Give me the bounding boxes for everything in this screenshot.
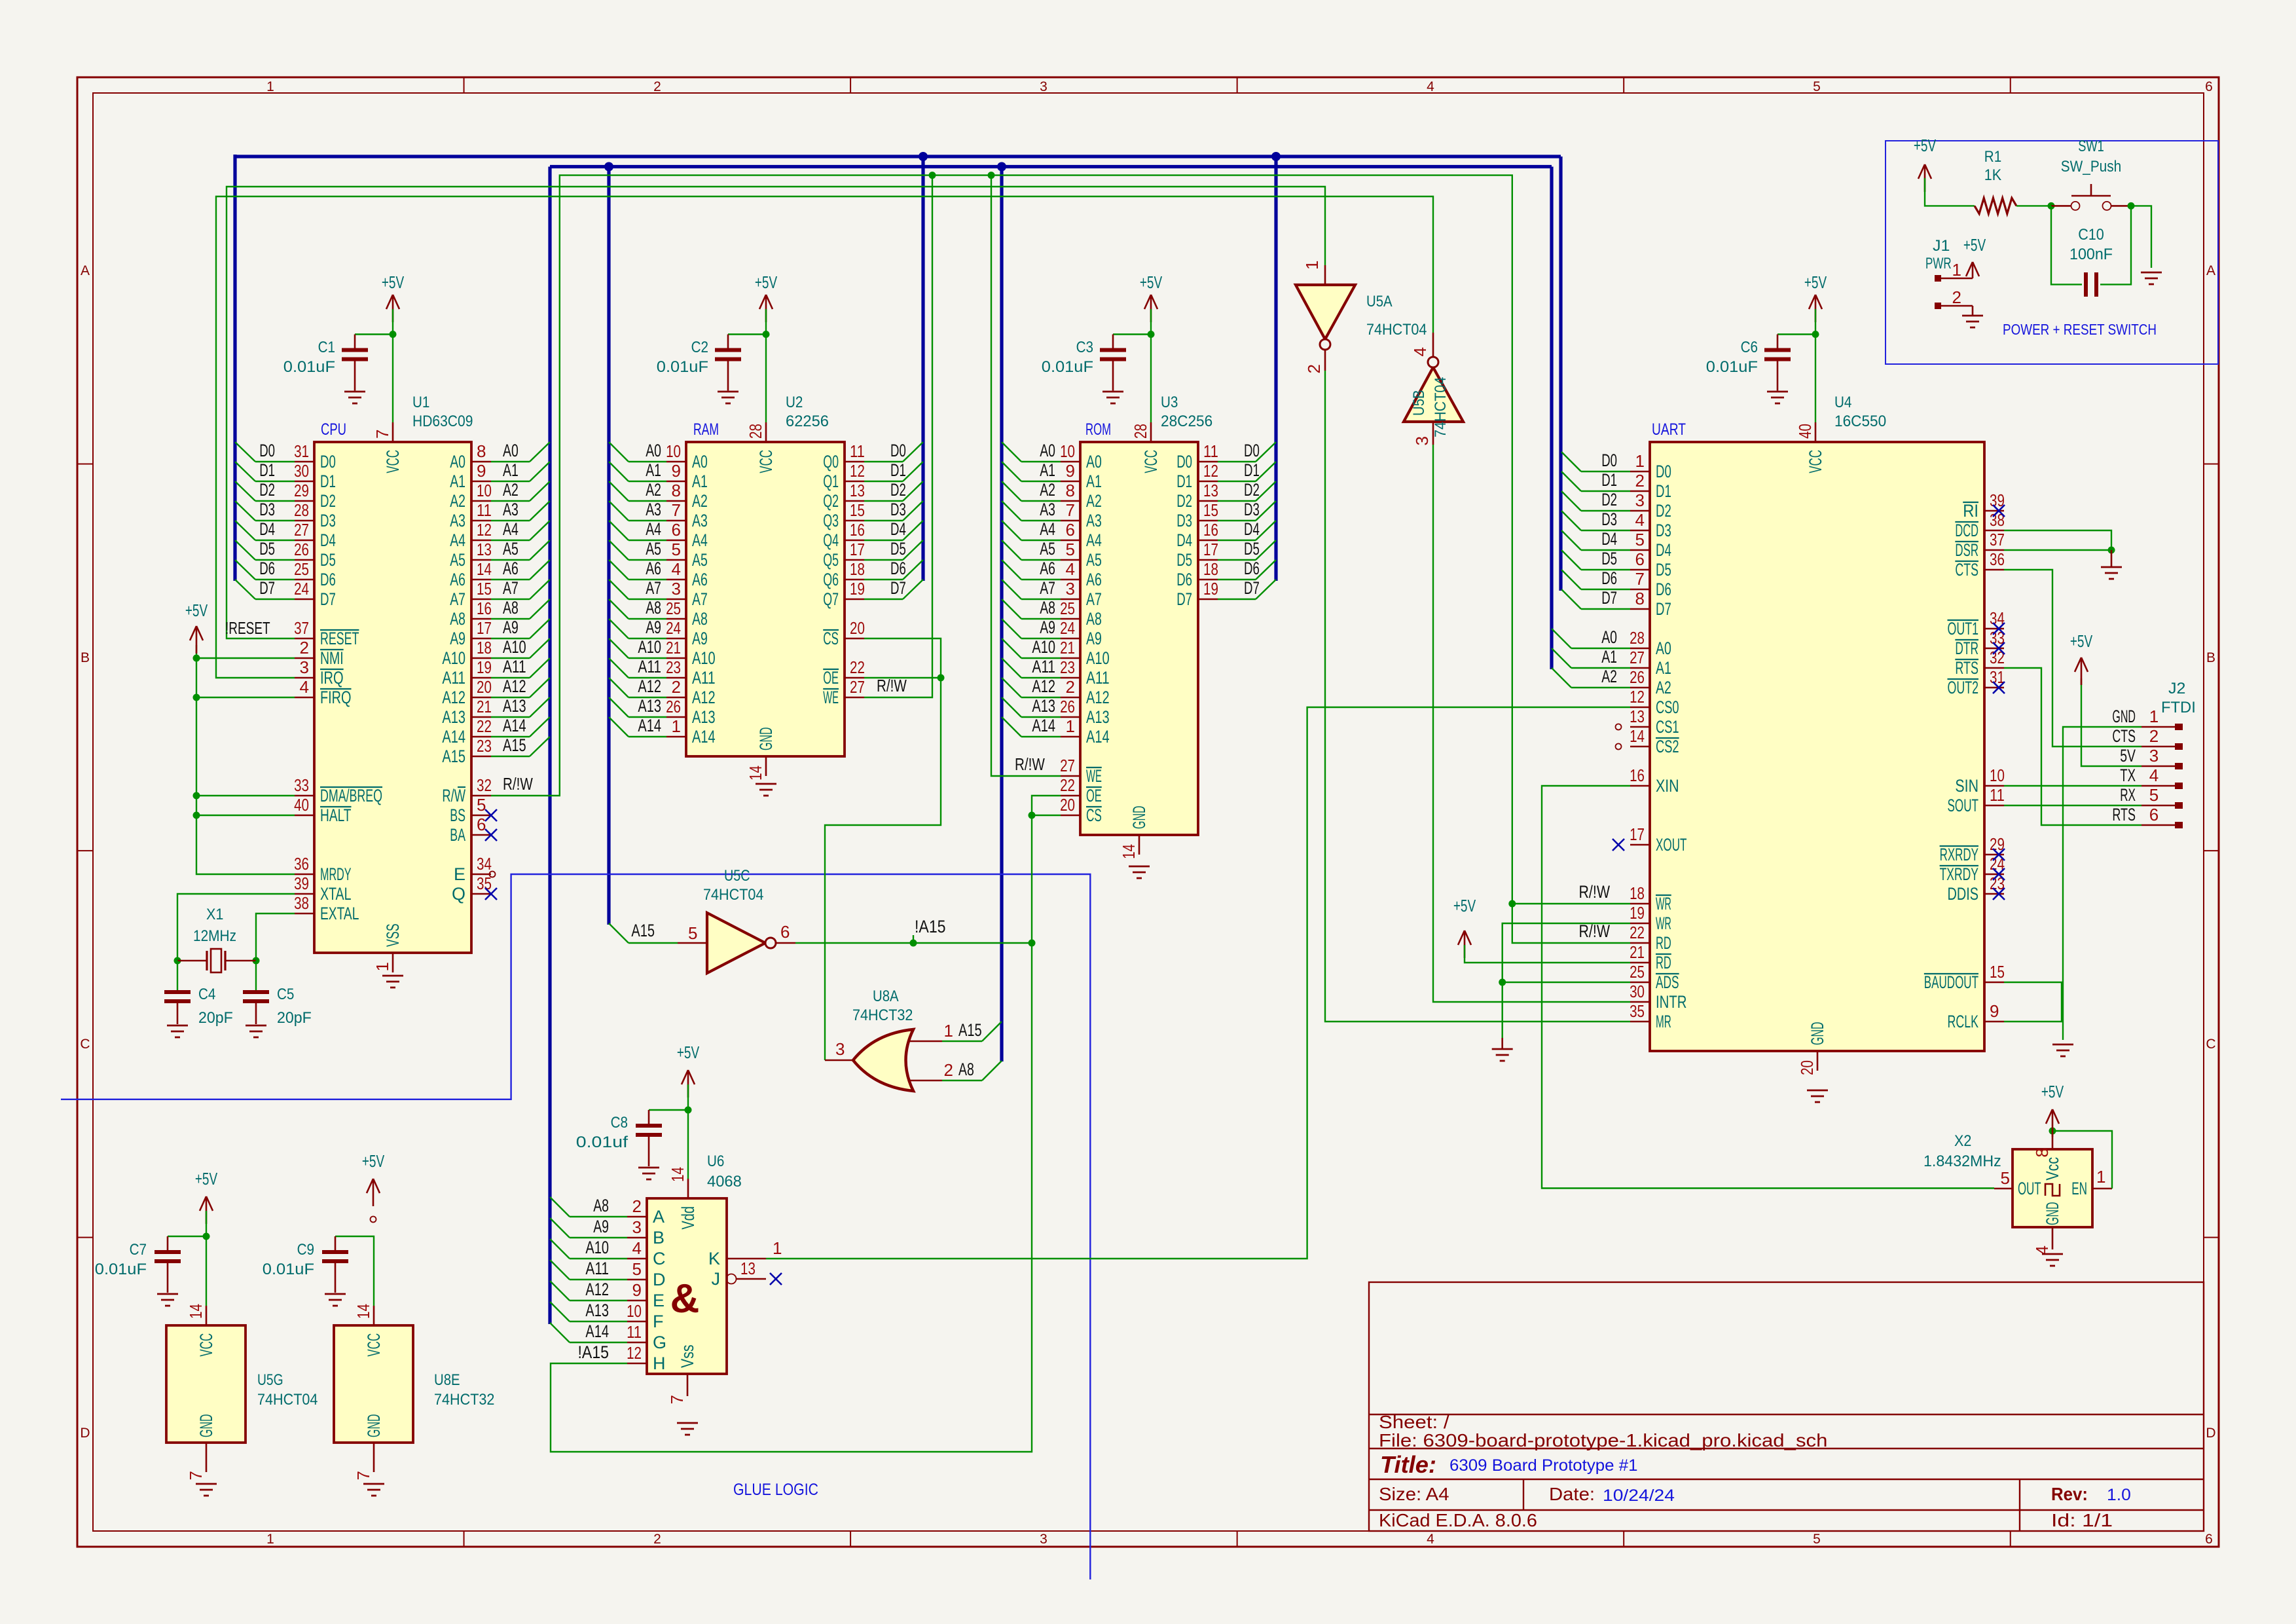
svg-text:A6: A6 xyxy=(646,559,661,578)
no-connect marks UART right side xyxy=(1993,505,2005,517)
svg-text:5: 5 xyxy=(2149,785,2159,805)
svg-text:A4: A4 xyxy=(450,530,465,550)
svg-text:RXRDY: RXRDY xyxy=(1940,845,1978,864)
svg-text:C7: C7 xyxy=(130,1241,147,1259)
svg-text:A1: A1 xyxy=(1601,647,1617,667)
svg-text:A0: A0 xyxy=(1086,452,1102,471)
junction ADS/ground rail xyxy=(1499,979,1506,986)
ROM address bus entries and labels xyxy=(1002,441,1061,737)
wire ROM OE/CS to !A15 vertical xyxy=(551,796,1061,1452)
svg-text:1.0: 1.0 xyxy=(2107,1486,2131,1504)
wire DSR to ground xyxy=(2004,549,2111,551)
svg-text:25: 25 xyxy=(1630,962,1645,982)
svg-text:D0: D0 xyxy=(1601,451,1617,470)
svg-text:A12: A12 xyxy=(638,676,661,696)
svg-text:GND: GND xyxy=(756,727,776,750)
svg-text:A9: A9 xyxy=(646,618,661,637)
svg-text:MRDY: MRDY xyxy=(320,864,352,884)
svg-text:A0: A0 xyxy=(503,441,519,460)
svg-text:39: 39 xyxy=(294,874,309,893)
svg-text:12: 12 xyxy=(477,520,492,540)
svg-text:XIN: XIN xyxy=(1656,776,1679,796)
svg-text:4: 4 xyxy=(1427,1532,1434,1547)
svg-text:25: 25 xyxy=(666,599,681,618)
wire RTS to J2 pin6 xyxy=(2004,668,2141,825)
svg-text:37: 37 xyxy=(1990,530,2005,549)
bus address bus (CPU A - RAM A - ROM A - UART A) xyxy=(550,165,1552,168)
junction DCD/DSR ground xyxy=(2108,547,2115,554)
bus RAM A vertical xyxy=(607,167,610,925)
svg-text:A5: A5 xyxy=(692,550,708,570)
svg-text:D3: D3 xyxy=(259,500,275,519)
svg-text:+5V: +5V xyxy=(1963,235,1986,255)
svg-text:37: 37 xyxy=(294,618,309,638)
svg-text:2: 2 xyxy=(300,638,309,657)
svg-text:9: 9 xyxy=(1990,1001,1999,1021)
wire U8A input A15 from ROM bus xyxy=(942,1041,982,1042)
svg-text:Vdd: Vdd xyxy=(678,1206,698,1230)
junction crystal right xyxy=(253,957,260,965)
svg-text:28: 28 xyxy=(1131,424,1150,439)
svg-text:A4: A4 xyxy=(1040,519,1055,539)
svg-text:RAM: RAM xyxy=(693,420,719,439)
svg-text:1: 1 xyxy=(373,962,392,971)
svg-text:Q3: Q3 xyxy=(823,511,839,530)
svg-text:3: 3 xyxy=(1066,579,1075,599)
svg-text:Title:: Title: xyxy=(1380,1451,1436,1478)
svg-text:A14: A14 xyxy=(585,1321,609,1341)
svg-text:38: 38 xyxy=(294,893,309,913)
svg-text:U2: U2 xyxy=(786,394,803,411)
svg-text:D2: D2 xyxy=(890,480,906,500)
svg-text:D2: D2 xyxy=(1656,501,1671,521)
svg-text:R/!W: R/!W xyxy=(877,676,907,695)
svg-text:29: 29 xyxy=(294,481,309,500)
ground at J1 pin2 xyxy=(1972,306,1974,316)
svg-text:GND: GND xyxy=(1129,805,1149,829)
svg-text:7: 7 xyxy=(373,430,392,439)
svg-text:!A15: !A15 xyxy=(915,917,946,936)
svg-text:CS2: CS2 xyxy=(1656,737,1679,756)
svg-text:GND: GND xyxy=(2112,707,2136,726)
junction +5V rail FIRQ xyxy=(193,694,200,701)
svg-text:4: 4 xyxy=(632,1238,642,1258)
svg-text:D5: D5 xyxy=(1601,549,1617,568)
svg-text:25: 25 xyxy=(1060,599,1075,618)
svg-text:A2: A2 xyxy=(503,480,519,500)
svg-text:6: 6 xyxy=(2205,79,2213,94)
svg-text:File: 6309-board-prototype-1.k: File: 6309-board-prototype-1.kicad_pro.k… xyxy=(1379,1430,1827,1450)
svg-text:1: 1 xyxy=(1635,451,1645,471)
svg-text:A2: A2 xyxy=(450,491,465,511)
svg-text:D4: D4 xyxy=(1601,529,1617,549)
svg-text:VCC: VCC xyxy=(383,450,403,473)
junction R/!W at ROM WE branch xyxy=(988,172,995,179)
svg-text:74HCT04: 74HCT04 xyxy=(1366,321,1427,339)
no-connect U6 J pin xyxy=(770,1273,782,1285)
inverter U5A 74HCT04 xyxy=(1296,261,1427,374)
crystal X1 12MHz xyxy=(177,906,256,972)
svg-text:74HCT32: 74HCT32 xyxy=(434,1391,494,1409)
svg-text:2: 2 xyxy=(632,1196,642,1216)
wire U8A input A8 from ROM bus xyxy=(942,1080,982,1081)
svg-text:14: 14 xyxy=(1119,844,1139,859)
svg-text:16: 16 xyxy=(1203,520,1218,540)
bus junction ROM D xyxy=(1271,152,1281,161)
svg-text:PWR: PWR xyxy=(1925,255,1952,272)
svg-text:A3: A3 xyxy=(450,511,465,530)
svg-text:4: 4 xyxy=(1635,510,1645,530)
svg-text:BS: BS xyxy=(450,805,465,825)
svg-text:DTR: DTR xyxy=(1955,638,1978,658)
bus ROM D vertical xyxy=(1274,157,1277,581)
svg-text:A13: A13 xyxy=(442,707,465,727)
svg-text:BA: BA xyxy=(450,825,465,845)
capacitor C8 with +5V to U6 Vdd xyxy=(687,1070,689,1098)
svg-text:OUT: OUT xyxy=(2018,1179,2041,1198)
oscillator X2 1.8432MHz xyxy=(1923,1131,2112,1255)
bus ROM A vertical xyxy=(1000,167,1003,1062)
svg-text:A10: A10 xyxy=(442,648,465,668)
capacitor C6 with +5V to UART VCC xyxy=(1815,295,1817,322)
svg-text:A1: A1 xyxy=(1040,460,1055,480)
svg-text:D4: D4 xyxy=(1176,530,1192,550)
svg-text:D3: D3 xyxy=(1176,511,1192,530)
svg-text:C2: C2 xyxy=(691,339,708,356)
svg-text:A15: A15 xyxy=(958,1020,982,1040)
or-gate U8A 74HCT32 (mirrored) xyxy=(825,987,953,1091)
svg-text:A14: A14 xyxy=(638,716,661,735)
svg-text:14: 14 xyxy=(186,1304,206,1319)
svg-text:10/24/24: 10/24/24 xyxy=(1603,1486,1675,1505)
svg-text:6: 6 xyxy=(672,520,681,540)
svg-text:74HCT32: 74HCT32 xyxy=(852,1006,913,1024)
power +5V at X2 xyxy=(2052,1109,2054,1137)
svg-text:8: 8 xyxy=(1066,481,1075,500)
svg-text:A0: A0 xyxy=(1040,441,1055,460)
bus RAM Q vertical xyxy=(921,157,924,581)
svg-text:26: 26 xyxy=(294,540,309,559)
svg-text:8: 8 xyxy=(1635,589,1645,608)
svg-text:25: 25 xyxy=(294,559,309,579)
svg-text:30: 30 xyxy=(294,461,309,481)
wire A15 into U5C input from RAM A bus xyxy=(629,942,678,944)
svg-text:A8: A8 xyxy=(1040,598,1055,618)
svg-text:1: 1 xyxy=(773,1238,782,1258)
svg-text:A: A xyxy=(2206,263,2215,278)
svg-text:XOUT: XOUT xyxy=(1656,835,1687,855)
svg-text:&: & xyxy=(670,1276,700,1321)
svg-text:A10: A10 xyxy=(692,648,716,668)
svg-text:A7: A7 xyxy=(646,578,661,598)
svg-text:A10: A10 xyxy=(1032,637,1055,657)
bus CPU D vertical xyxy=(233,155,236,581)
svg-text:6: 6 xyxy=(1066,520,1075,540)
svg-text:A13: A13 xyxy=(585,1301,609,1320)
svg-text:+5V: +5V xyxy=(185,600,208,620)
svg-text:A15: A15 xyxy=(442,747,465,766)
wire CTS to J2 pin2 xyxy=(2004,570,2141,747)
svg-text:D4: D4 xyxy=(320,530,336,550)
junction ROM CS xyxy=(1029,812,1036,819)
svg-text:R/!W: R/!W xyxy=(1015,754,1045,774)
svg-text:21: 21 xyxy=(1630,942,1645,962)
svg-text:6: 6 xyxy=(2205,1532,2213,1547)
power +5V to UART RD21 xyxy=(1464,931,1466,958)
svg-text:A3: A3 xyxy=(646,500,661,519)
svg-text:D: D xyxy=(653,1270,666,1289)
svg-text:D2: D2 xyxy=(259,480,275,500)
svg-text:27: 27 xyxy=(850,677,865,697)
svg-text:MR: MR xyxy=(1656,1012,1671,1031)
svg-text:C: C xyxy=(2206,1037,2215,1052)
capacitor C5 xyxy=(255,961,257,990)
svg-text:D6: D6 xyxy=(259,559,275,578)
svg-text:A9: A9 xyxy=(450,629,465,648)
svg-text:CS0: CS0 xyxy=(1656,697,1679,717)
svg-text:+5V: +5V xyxy=(2041,1082,2064,1101)
svg-text:U3: U3 xyxy=(1161,394,1178,411)
junction R/!W at RAM WE branch xyxy=(929,172,936,179)
svg-text:10: 10 xyxy=(477,481,492,500)
wire U5A output to UART MR xyxy=(1325,371,1630,1022)
svg-text:3: 3 xyxy=(2149,746,2159,766)
svg-text:NMI: NMI xyxy=(320,648,344,668)
svg-text:+5V: +5V xyxy=(1914,136,1937,155)
svg-text:A3: A3 xyxy=(503,500,519,519)
svg-text:1: 1 xyxy=(1066,716,1075,736)
svg-text:R/W: R/W xyxy=(442,786,465,805)
svg-text:D6: D6 xyxy=(1656,580,1671,599)
svg-text:20pF: 20pF xyxy=(277,1009,312,1027)
svg-text:+5V: +5V xyxy=(1453,896,1476,915)
svg-text:+5V: +5V xyxy=(382,272,405,292)
svg-text:GLUE LOGIC: GLUE LOGIC xyxy=(733,1481,818,1499)
svg-text:D7: D7 xyxy=(1244,578,1260,598)
svg-text:UART: UART xyxy=(1652,420,1686,439)
svg-text:Sheet: /: Sheet: / xyxy=(1379,1412,1449,1432)
no-connect CPU Q xyxy=(485,888,497,900)
svg-text:5: 5 xyxy=(672,540,681,559)
svg-text:VCC: VCC xyxy=(756,450,776,473)
bus junction ROM A xyxy=(997,162,1006,172)
title block xyxy=(1369,1282,2204,1531)
svg-text:D4: D4 xyxy=(1656,540,1671,560)
svg-text:28: 28 xyxy=(746,424,765,439)
svg-text:35: 35 xyxy=(477,874,492,893)
ground symbol ROM GND xyxy=(1129,866,1150,868)
svg-text:D2: D2 xyxy=(1176,491,1192,511)
svg-text:A12: A12 xyxy=(585,1280,609,1299)
svg-text:D1: D1 xyxy=(1601,470,1617,490)
svg-text:U8A: U8A xyxy=(873,987,899,1005)
svg-text:5: 5 xyxy=(1813,1532,1821,1547)
capacitor C2 with +5V to RAM VCC xyxy=(765,295,767,322)
wire U6 K output to UART CS0 xyxy=(766,707,1630,1259)
wire +5V to R1 xyxy=(1925,178,1975,206)
svg-text:CPU: CPU xyxy=(321,420,346,439)
svg-text:24: 24 xyxy=(294,579,309,599)
svg-text:A13: A13 xyxy=(1086,707,1110,727)
svg-text:A6: A6 xyxy=(450,570,465,589)
svg-text:A7: A7 xyxy=(692,589,708,609)
wire HALT to +5V rail xyxy=(196,815,295,816)
svg-text:23: 23 xyxy=(477,736,492,756)
svg-text:VCC: VCC xyxy=(1141,450,1161,473)
unconnected circles UART CS1 CS2 xyxy=(1616,724,1622,730)
svg-text:13: 13 xyxy=(1630,707,1645,726)
svg-text:1: 1 xyxy=(266,79,274,94)
svg-text:A13: A13 xyxy=(638,696,661,716)
svg-text:+5V: +5V xyxy=(2070,631,2093,651)
wire ROM CS stub xyxy=(1032,815,1061,816)
wire RAM OE stub xyxy=(864,677,941,678)
power unit U8E 74HCT32 xyxy=(334,1304,494,1480)
capacitor C10 xyxy=(2084,272,2088,297)
svg-text:3: 3 xyxy=(632,1217,642,1237)
svg-text:36: 36 xyxy=(294,854,309,874)
svg-text:RD: RD xyxy=(1656,953,1671,972)
svg-text:SW1: SW1 xyxy=(2078,138,2104,155)
svg-text:C10: C10 xyxy=(2078,226,2104,244)
svg-text:A10: A10 xyxy=(638,637,661,657)
svg-text:X2: X2 xyxy=(1954,1132,1971,1150)
svg-text:20: 20 xyxy=(1060,795,1075,815)
svg-text:C4: C4 xyxy=(198,986,215,1003)
IC U1 HD63C09 CPU xyxy=(294,394,492,972)
svg-text:DCD: DCD xyxy=(1955,521,1978,540)
svg-text:OE: OE xyxy=(823,668,839,688)
svg-text:GND: GND xyxy=(196,1414,216,1437)
svg-text:R/!W: R/!W xyxy=(1579,882,1611,902)
wire U5B input from UART INTR xyxy=(1433,445,1630,1002)
svg-text:A1: A1 xyxy=(450,471,465,491)
ground symbol U8E xyxy=(363,1483,384,1485)
svg-text:D5: D5 xyxy=(1656,560,1671,580)
svg-text:19: 19 xyxy=(1630,903,1645,923)
svg-text:D5: D5 xyxy=(320,550,336,570)
svg-text:C1: C1 xyxy=(318,339,335,356)
svg-text:DMA/BREQ: DMA/BREQ xyxy=(320,786,382,805)
wire C10 right leg xyxy=(2100,206,2131,284)
resistor R1 xyxy=(1975,198,2016,213)
svg-text:18: 18 xyxy=(1203,559,1218,579)
svg-text:17: 17 xyxy=(477,618,492,638)
svg-text:100nF: 100nF xyxy=(2069,246,2113,263)
svg-text:A8: A8 xyxy=(692,609,708,629)
svg-text:!RESET: !RESET xyxy=(225,618,270,638)
svg-text:A14: A14 xyxy=(503,716,526,735)
power +5V at J1 pin1 xyxy=(1972,262,1974,278)
svg-text:WR: WR xyxy=(1656,894,1671,913)
svg-text:A14: A14 xyxy=(692,727,716,747)
svg-text:A11: A11 xyxy=(1032,657,1055,676)
svg-text:3: 3 xyxy=(672,579,681,599)
svg-text:4: 4 xyxy=(1427,79,1434,94)
svg-text:A3: A3 xyxy=(692,511,708,530)
wire !A15 from U5C output xyxy=(795,942,1032,944)
svg-text:A3: A3 xyxy=(1040,500,1055,519)
svg-text:A5: A5 xyxy=(1040,539,1055,559)
svg-text:D0: D0 xyxy=(890,441,906,460)
svg-text:27: 27 xyxy=(1060,756,1075,775)
svg-text:Size: A4: Size: A4 xyxy=(1379,1484,1449,1504)
svg-text:A12: A12 xyxy=(442,688,465,707)
svg-text:24: 24 xyxy=(666,618,681,638)
svg-text:20: 20 xyxy=(850,618,865,638)
capacitor C4 xyxy=(177,961,178,990)
svg-text:Q6: Q6 xyxy=(823,570,839,589)
svg-text:A7: A7 xyxy=(503,578,519,598)
svg-text:16: 16 xyxy=(850,520,865,540)
svg-text:A0: A0 xyxy=(450,452,465,471)
svg-text:A11: A11 xyxy=(442,668,465,688)
wire BAUDOUT to RCLK loop xyxy=(2004,982,2062,1022)
svg-text:+5V: +5V xyxy=(362,1151,385,1171)
svg-text:A12: A12 xyxy=(1032,676,1055,696)
svg-text:10: 10 xyxy=(1990,766,2005,785)
svg-text:6: 6 xyxy=(2149,805,2159,824)
svg-text:U8E: U8E xyxy=(434,1371,460,1389)
svg-text:22: 22 xyxy=(850,657,865,677)
wire R/!W branch to RAM WE xyxy=(864,175,932,697)
svg-text:1: 1 xyxy=(944,1021,953,1041)
svg-text:D2: D2 xyxy=(1244,480,1260,500)
svg-text:D4: D4 xyxy=(1244,519,1260,539)
svg-text:1: 1 xyxy=(1952,260,1961,280)
svg-text:IRQ: IRQ xyxy=(320,668,344,688)
svg-text:6309 Board Prototype #1: 6309 Board Prototype #1 xyxy=(1449,1456,1638,1475)
svg-text:5: 5 xyxy=(1813,79,1821,94)
svg-text:A10: A10 xyxy=(1086,648,1110,668)
svg-text:VSS: VSS xyxy=(383,923,403,947)
svg-text:18: 18 xyxy=(477,638,492,657)
svg-text:D0: D0 xyxy=(1244,441,1260,460)
svg-text:A8: A8 xyxy=(450,609,465,629)
svg-text:RD: RD xyxy=(1656,933,1671,953)
svg-text:D6: D6 xyxy=(1601,568,1617,588)
svg-text:RX: RX xyxy=(2120,785,2136,805)
svg-text:A2: A2 xyxy=(1601,667,1617,686)
svg-text:74HCT04: 74HCT04 xyxy=(703,886,763,904)
svg-text:A11: A11 xyxy=(585,1259,609,1278)
junction +5V rail HALT xyxy=(193,812,200,819)
svg-text:14: 14 xyxy=(477,559,492,579)
svg-text:U5A: U5A xyxy=(1366,293,1393,310)
svg-text:D7: D7 xyxy=(1601,588,1617,608)
svg-text:5: 5 xyxy=(1066,540,1075,559)
svg-text:VCC: VCC xyxy=(196,1333,216,1357)
svg-text:1: 1 xyxy=(2149,707,2159,726)
svg-text:D7: D7 xyxy=(1656,599,1671,619)
wire RAM CS/OE to U8A output xyxy=(825,638,941,1060)
ground symbol X2 xyxy=(2042,1253,2063,1255)
svg-text:A14: A14 xyxy=(1086,727,1110,747)
svg-text:1: 1 xyxy=(1302,261,1322,270)
svg-text:A2: A2 xyxy=(1086,491,1102,511)
svg-text:36: 36 xyxy=(1990,549,2005,569)
svg-text:D5: D5 xyxy=(259,539,275,559)
svg-text:A9: A9 xyxy=(692,629,708,648)
power +5V for J2 xyxy=(2081,657,2083,685)
inverter U5C 74HCT04 xyxy=(678,867,795,973)
svg-text:RCLK: RCLK xyxy=(1948,1012,1979,1031)
svg-text:CS: CS xyxy=(1086,805,1102,825)
svg-text:+5V: +5V xyxy=(755,272,778,292)
svg-text:8: 8 xyxy=(2032,1148,2052,1157)
svg-text:26: 26 xyxy=(1630,667,1645,687)
svg-text:Rev:: Rev: xyxy=(2051,1484,2088,1504)
